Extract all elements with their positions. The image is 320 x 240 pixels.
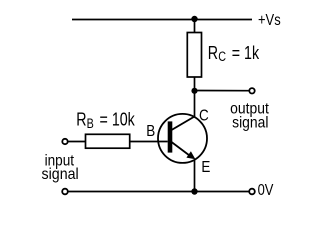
transistor Q1 circle [158,114,207,163]
wire emitter to 0V rail [194,160,196,192]
wire collector node to output terminal [195,90,249,92]
transistor Q1 emitter arrowhead [186,151,195,159]
resistor RB [86,134,130,148]
svg-text:= 10k: = 10k [96,110,136,130]
terminal 0V right [249,189,255,195]
node collector junction [191,88,197,94]
resistor RC [187,33,201,78]
wire bottom rail 0V [68,191,249,193]
wire top rail +Vs [72,19,252,21]
label output signal [230,101,269,132]
terminal 0V left [62,189,68,195]
wire RB to base [130,141,168,143]
svg-text:C: C [199,108,209,125]
label input signal [42,152,79,183]
transistor Q1 emitter stroke [172,142,192,157]
terminal output [249,88,254,93]
svg-text:signal: signal [232,115,268,132]
transistor Q1 collector stroke [172,117,195,131]
value label RB = 10k [76,110,135,131]
svg-text:E: E [201,159,210,176]
svg-text:B: B [87,116,94,132]
wire from +Vs rail to RC [194,20,196,34]
svg-text:B: B [146,123,155,140]
wire RC to collector node [194,77,196,91]
transistor Q1 base bar [168,121,173,152]
wire input terminal to RB [68,141,86,143]
svg-text:+Vs: +Vs [258,12,281,29]
svg-text:R: R [76,110,86,130]
svg-text:= 1k: = 1k [228,43,260,63]
wire collector node down to transistor [194,91,196,117]
svg-text:0V: 0V [258,182,274,199]
svg-text:C: C [218,49,226,65]
node +Vs junction [191,16,197,22]
svg-text:R: R [208,43,218,63]
svg-text:signal: signal [42,165,79,183]
node emitter junction [191,188,197,194]
value label RC = 1k [208,43,260,64]
terminal input [62,139,67,144]
